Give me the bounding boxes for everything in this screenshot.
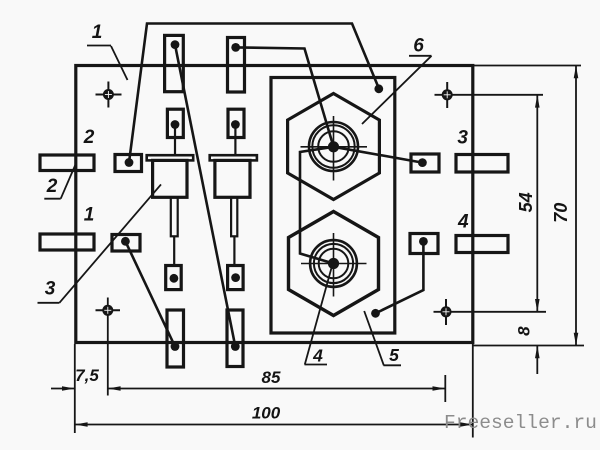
svg-text:1: 1 — [84, 205, 95, 226]
label 3 underline and leader (outside left) — [38, 184, 162, 302]
node center of upper screw — [328, 141, 339, 152]
svg-text:70: 70 — [551, 203, 571, 223]
mounting plate (item 5) — [271, 78, 395, 334]
pad C (bottom tall pad, left) — [167, 310, 184, 367]
board outline — [76, 66, 473, 343]
extension line: right for dim 85 — [444, 375, 446, 402]
wire from pad F to transistor V2 — [234, 128, 236, 155]
wire from pad M to node D2 — [376, 241, 424, 313]
pad M (square pad right lower) — [410, 234, 438, 254]
extension line: board left edge down — [74, 344, 76, 433]
extension line: board top edge right for dim 70 — [473, 65, 581, 67]
label 4 (bottom, with underline and leader) — [305, 264, 333, 365]
mounting hole top-right (with extension line for dim 54) — [435, 82, 544, 108]
wire from pad E to transistor V1 — [174, 128, 176, 155]
wire from upper screw center to pad L — [334, 147, 423, 163]
dimension 70 (vertical) — [574, 66, 579, 346]
mounting hole bottom-left (vertical extension line for dims 7,5 / 85) — [96, 298, 121, 396]
label 6 (top right, with leader) — [362, 56, 432, 124]
svg-text:2: 2 — [46, 176, 58, 197]
terminal 1 (left lower lug) — [40, 234, 94, 250]
terminal 4 (right lower lug) — [456, 236, 508, 253]
transistor V2 — [210, 155, 257, 236]
hex nut (item 6, upper) — [288, 94, 380, 200]
terminal 3 (right upper lug) — [456, 155, 508, 173]
hex nut (lower) — [289, 212, 379, 316]
pad K (square pad left lower) — [112, 235, 140, 252]
svg-text:3: 3 — [457, 127, 468, 148]
svg-text:5: 5 — [389, 345, 399, 365]
dimension 7,5 (arrows outside) — [51, 386, 75, 391]
svg-text:100: 100 — [252, 404, 281, 423]
label 2 underline and leader (outside left) — [44, 163, 76, 199]
wire from transistor V2 lead to pad H — [233, 236, 235, 266]
pad F (small pad above transistor V2) — [228, 109, 244, 137]
dimension 85 — [108, 386, 446, 391]
wire from transistor V1 lead to pad G — [173, 236, 175, 266]
dimension 54 (vertical) — [535, 95, 540, 312]
node D1 (junction dot on plate, upper right) — [374, 84, 383, 93]
svg-text:6: 6 — [413, 35, 424, 56]
svg-text:8: 8 — [515, 326, 534, 336]
screw head circles (lower, item 4) — [310, 240, 357, 287]
pad G (small pad below transistor V1) — [166, 266, 182, 290]
pad H (small pad below transistor V2) — [228, 266, 244, 290]
svg-text:85: 85 — [262, 368, 281, 387]
svg-text:4: 4 — [457, 212, 469, 233]
svg-text:Freeseller.ru: Freeseller.ru — [444, 412, 597, 434]
mounting hole top-left — [96, 82, 122, 108]
extension line: board bottom edge right for dims 8 and 70 — [473, 345, 584, 347]
terminal 2 (left upper lug) — [40, 155, 94, 171]
centerlines (lower screw) — [301, 233, 367, 297]
pad B (top tall pad, right) — [228, 38, 245, 93]
svg-text:54: 54 — [516, 192, 536, 212]
svg-text:1: 1 — [92, 22, 103, 43]
centerlines (upper screw) — [301, 116, 368, 181]
pad J (square pad left upper) — [115, 155, 142, 172]
wire from pad K to pad C — [125, 241, 175, 346]
pad D (bottom tall pad, right) — [227, 310, 243, 367]
svg-text:3: 3 — [45, 279, 56, 300]
label 5 (bottom, with underline and leader) — [364, 311, 401, 365]
pad E (small pad above transistor V1) — [167, 109, 183, 137]
dimension 8 (lower arrow) — [535, 346, 540, 375]
wire from pad J up over the top to node D1 — [129, 24, 379, 163]
wire from pad A to pad D (long diagonal) — [175, 45, 235, 347]
wire from pad B to upper screw center — [236, 47, 334, 146]
node D2 (junction dot on plate, lower right) — [371, 309, 380, 318]
wire linking upper and lower screw centers — [300, 147, 334, 264]
svg-text:2: 2 — [83, 127, 95, 148]
dimension 100 — [75, 422, 473, 427]
svg-text:4: 4 — [312, 346, 323, 366]
transistor V1 — [147, 155, 194, 236]
label 1 (top, with leader) — [87, 46, 128, 81]
extension line: board right edge down for dim 100 — [472, 344, 474, 438]
pad A (top tall pad, left) — [165, 35, 184, 91]
mounting hole bottom-right (with extension line for dims 54 / 8) — [434, 299, 547, 325]
node center of lower screw — [328, 258, 339, 269]
svg-text:7,5: 7,5 — [75, 366, 99, 385]
screw head circles (upper) — [309, 122, 358, 171]
pad L (square pad right upper) — [411, 154, 439, 172]
